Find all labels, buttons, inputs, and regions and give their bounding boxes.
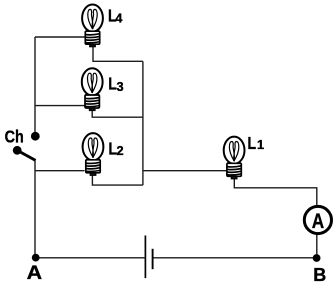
svg-text:A: A [27, 262, 43, 282]
svg-text:Ch: Ch [5, 127, 24, 147]
svg-text:2: 2 [117, 143, 124, 158]
svg-text:A: A [312, 209, 324, 233]
svg-text:3: 3 [117, 79, 124, 94]
svg-text:L: L [248, 133, 257, 153]
svg-text:B: B [313, 265, 326, 282]
svg-text:1: 1 [257, 137, 264, 152]
svg-text:4: 4 [115, 10, 123, 25]
